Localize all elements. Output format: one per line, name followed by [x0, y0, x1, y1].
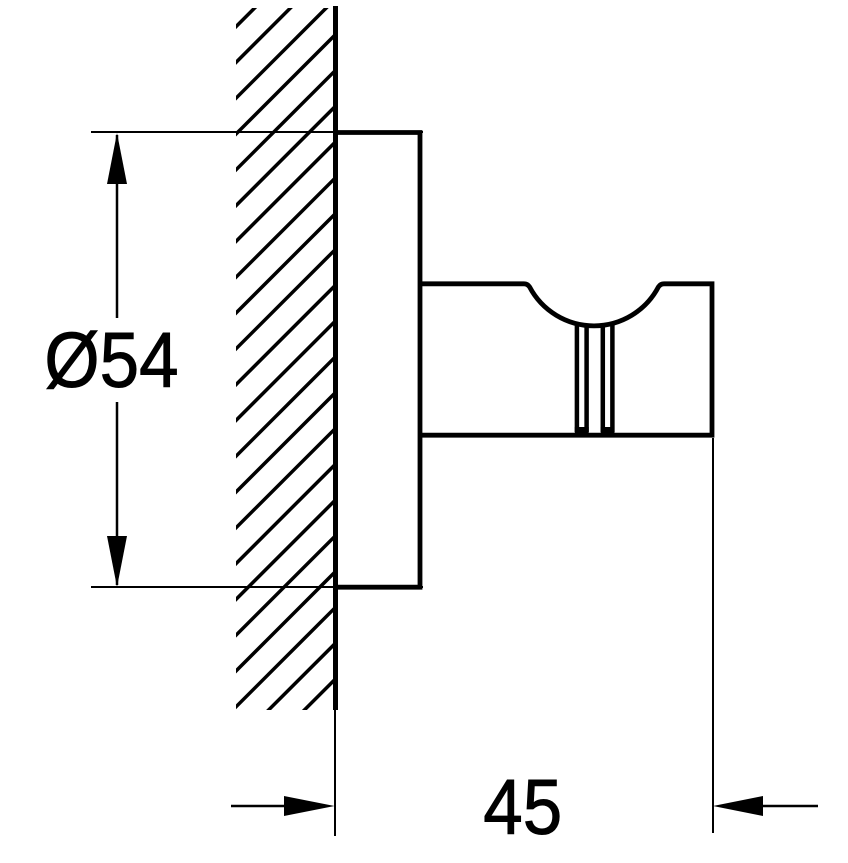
dim Ø54 arrow down [107, 536, 127, 587]
knob shaft lines [577, 322, 613, 432]
dim 45 right arrow line [763, 805, 818, 808]
svg-text:Ø54: Ø54 [44, 315, 178, 403]
dim 45 right arrowhead [713, 796, 763, 816]
hook face extension line [712, 438, 714, 833]
dim Ø54 arrow up [107, 133, 127, 184]
dim Ø54 extension line bottom [91, 586, 423, 588]
knob shaft pair caps [575, 427, 589, 437]
wall line [333, 6, 338, 710]
dim 45 left arrow line [231, 805, 290, 808]
wall extension line (below, for 45 dim) [334, 710, 336, 836]
dim Ø54 line lower segment [116, 402, 119, 585]
wall hatch [217, 0, 335, 797]
flange wall plate [333, 133, 420, 588]
hook body outline [420, 284, 712, 435]
svg-text:45: 45 [483, 762, 562, 850]
dim Ø54 line upper segment [116, 135, 119, 318]
dim Ø54 extension line top [91, 131, 423, 133]
dim 45 left arrowhead [284, 796, 335, 816]
